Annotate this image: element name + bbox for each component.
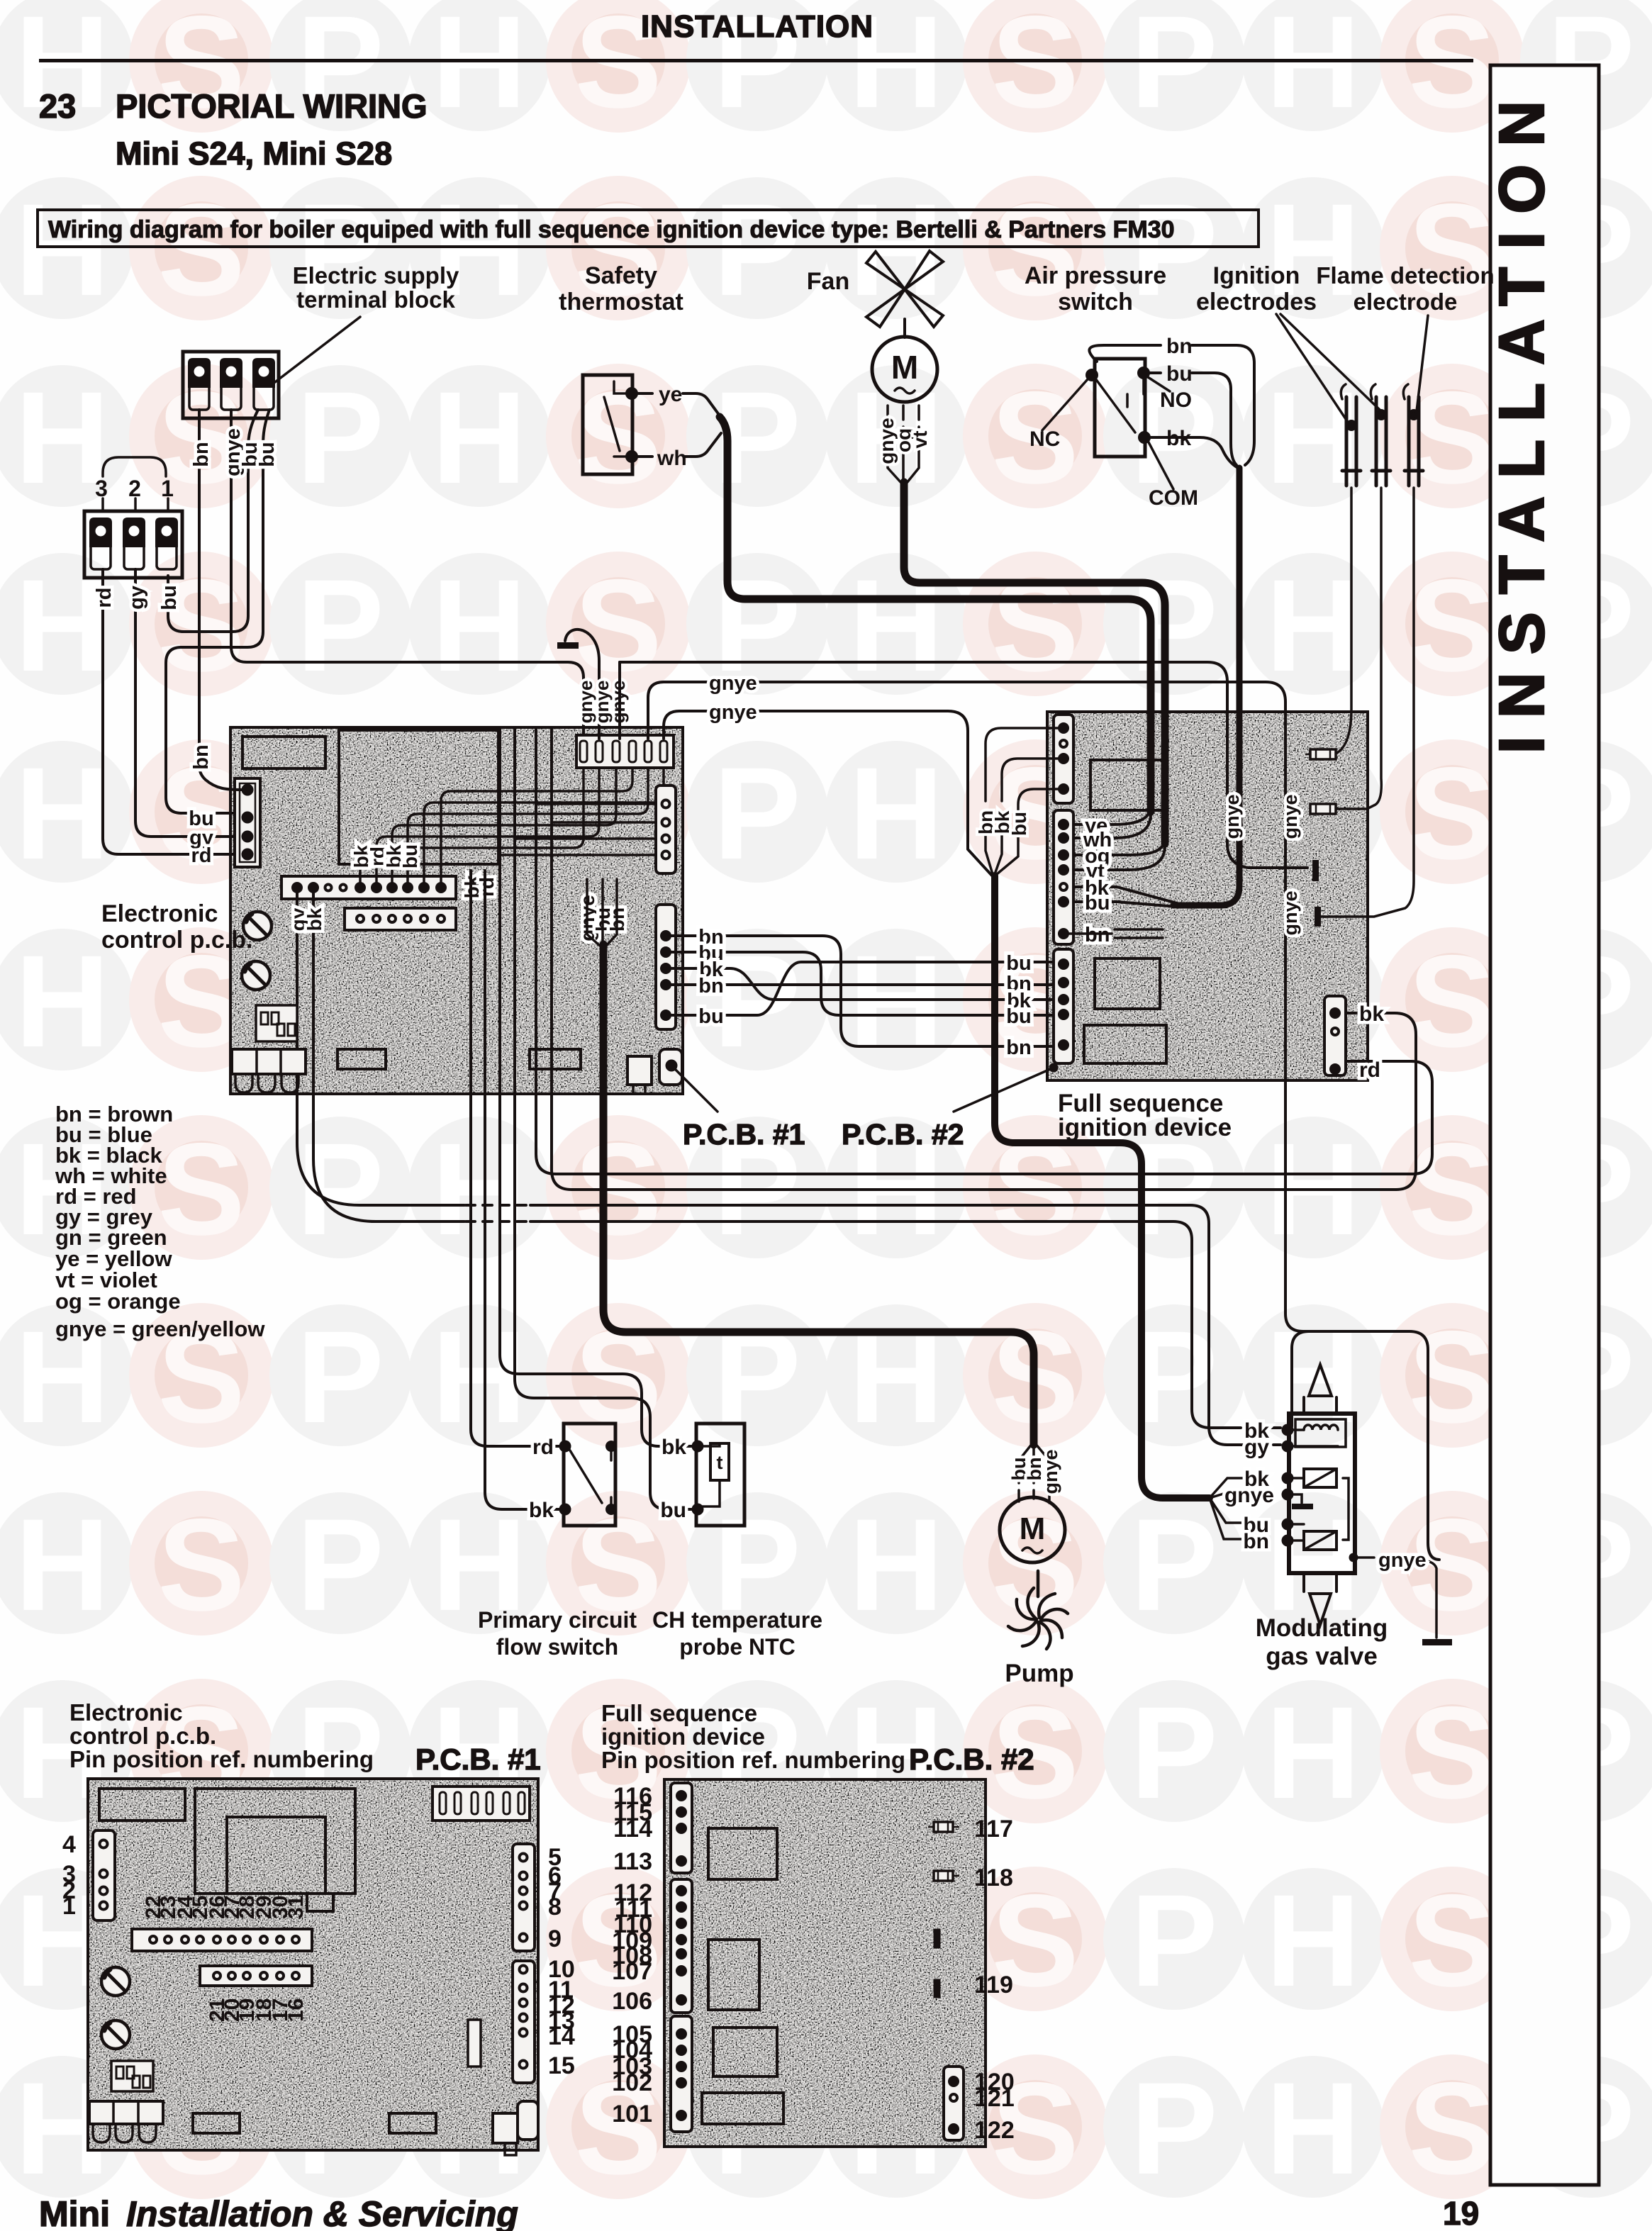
wire bu to NTC — [515, 727, 692, 1509]
svg-text:bu: bu — [1085, 892, 1110, 915]
10 pin connector strip — [281, 876, 456, 899]
svg-text:31: 31 — [284, 1896, 308, 1919]
leader line to PCB#2 label — [1049, 1063, 1059, 1073]
top-left box — [99, 1789, 185, 1821]
label: Safety thermostat — [559, 262, 683, 315]
svg-text:rd: rd — [1359, 1058, 1380, 1082]
wire loom slot4 to pin10 — [441, 768, 632, 883]
PCB1 electronic control pcb board base — [230, 727, 683, 1094]
thick cable from fan to PCB2 — [904, 482, 1165, 844]
svg-text:INSTALLATION: INSTALLATION — [1487, 83, 1558, 754]
svg-text:Pin position ref. numbering: Pin position ref. numbering — [601, 1747, 905, 1773]
PCB2 left connector bottom — [1054, 949, 1073, 1063]
svg-text:bn: bn — [190, 442, 213, 466]
svg-text:119: 119 — [974, 1972, 1013, 1998]
svg-text:ignition device: ignition device — [1058, 1114, 1232, 1141]
svg-text:bn: bn — [1006, 1036, 1031, 1059]
svg-text:gnye: gnye — [1222, 794, 1243, 839]
svg-text:8: 8 — [548, 1894, 562, 1920]
primary circuit flow switch — [561, 1424, 616, 1526]
svg-text:bu: bu — [698, 1005, 723, 1028]
rotated pin numbers 21-16 — [206, 1998, 308, 2022]
PCB1 bottom right connector with dot — [627, 1049, 682, 1094]
Electronic control pcb caption — [101, 900, 252, 954]
PCB1 left edge connector — [235, 778, 260, 867]
labels bk rd at PCB2 right — [1359, 1002, 1384, 1082]
svg-text:122: 122 — [974, 2117, 1015, 2144]
PCB1 board outline — [230, 727, 683, 1094]
left connector 112-106 — [671, 1879, 692, 2013]
left connector 116-113 — [671, 1783, 692, 1873]
thermostat cable fork to ye wh — [1072, 808, 1151, 838]
PCB1 right edge connector lower — [656, 905, 676, 1029]
caption electronic control pcb pin numbering — [69, 1699, 541, 1776]
thick cable from thermostat to PCB2 — [720, 417, 1151, 812]
wire ye — [637, 393, 721, 418]
svg-text:bk: bk — [1166, 427, 1191, 450]
fan wires gnye og vt — [888, 406, 919, 483]
ignition electrode 2 — [1337, 384, 1390, 809]
pump wires merge inside PCB1 — [587, 879, 617, 946]
gas valve operators — [1283, 1469, 1349, 1550]
svg-text:bk: bk — [303, 907, 325, 931]
potentiometer P1 — [243, 912, 272, 940]
wire loom slot6 to pin9 — [424, 768, 664, 883]
svg-text:Safety: Safety — [585, 262, 657, 289]
svg-text:M: M — [1020, 1511, 1046, 1546]
gnye labels above strip — [575, 681, 629, 724]
svg-text:wh: wh — [657, 447, 687, 470]
potentiometers — [101, 1967, 130, 2049]
wire gnye from TB1 long horizontal — [231, 410, 584, 739]
svg-text:Installation & Servicing: Installation & Servicing — [126, 2194, 518, 2231]
bn wire end into left connector — [199, 766, 242, 790]
svg-text:102: 102 — [612, 2069, 652, 2096]
svg-text:rd: rd — [93, 588, 116, 608]
hooked wires from pins 1 3 4 — [986, 728, 1059, 801]
svg-text:114: 114 — [613, 1816, 652, 1843]
PCB2 full sequence ignition device board base — [1047, 712, 1368, 1080]
wire bk PCB1 to PCB2 pin bk — [670, 968, 1069, 1000]
right small components 117 118 119 — [929, 1822, 959, 1997]
svg-text:3: 3 — [95, 476, 108, 501]
gnye wire pin3 branch — [618, 662, 621, 739]
svg-text:INSTALLATION: INSTALLATION — [641, 9, 874, 44]
svg-text:P.C.B. #1: P.C.B. #1 — [415, 1743, 541, 1776]
svg-text:CH temperature: CH temperature — [652, 1607, 822, 1633]
second pin connector — [200, 1966, 312, 1986]
APS cable fork to bk bu — [1072, 887, 1177, 907]
PCB#2 inner boxes — [708, 1828, 777, 1879]
svg-text:Primary circuit: Primary circuit — [478, 1607, 637, 1633]
svg-text:M: M — [891, 349, 918, 386]
svg-text:switch: switch — [1058, 289, 1133, 315]
pump impeller — [1008, 1571, 1068, 1649]
svg-text:bn: bn — [1243, 1530, 1269, 1553]
svg-text:4: 4 — [62, 1831, 76, 1858]
earth terminal bar bottom right — [1422, 1639, 1452, 1645]
right INSTALLATION side banner — [1490, 65, 1599, 2185]
gas valve coil — [1283, 1419, 1346, 1451]
svg-text:bk: bk — [1359, 1002, 1384, 1026]
svg-text:113: 113 — [613, 1848, 652, 1875]
top right connector — [432, 1787, 530, 1821]
svg-text:control p.c.b.: control p.c.b. — [69, 1723, 216, 1749]
wire gy TB2 to PCB1 — [135, 569, 242, 837]
svg-text:121: 121 — [974, 2085, 1015, 2112]
wire bn2 PCB1 to PCB2 — [670, 983, 1069, 986]
svg-text:control p.c.b.: control p.c.b. — [101, 927, 252, 954]
Full sequence ignition device caption — [1058, 1090, 1232, 1141]
PCB1 bottom small boxes — [337, 1049, 386, 1069]
bottom small boxes — [193, 2113, 240, 2133]
svg-text:118: 118 — [974, 1864, 1013, 1891]
svg-text:ignition device: ignition device — [601, 1723, 765, 1750]
labels bk bu left of PCB2 — [975, 810, 1030, 836]
svg-text:rd: rd — [476, 877, 498, 897]
fan motor M — [872, 337, 937, 402]
bottom right connectors — [493, 2101, 538, 2155]
wire labels bn gnye bu bu (rotated) — [190, 428, 279, 476]
svg-text:bu: bu — [1008, 812, 1030, 836]
wire bk to flow switch — [485, 871, 559, 1509]
jog wires to right edge connector — [500, 804, 656, 855]
svg-text:P.C.B. #2: P.C.B. #2 — [842, 1118, 964, 1151]
svg-text:106: 106 — [612, 1988, 652, 2015]
gnye wire from pin5 to PCB2 — [648, 682, 1285, 744]
earth terminal bar — [557, 642, 579, 649]
svg-text:Ignition: Ignition — [1213, 262, 1300, 289]
svg-text:rd: rd — [532, 1436, 554, 1459]
svg-text:og = orange: og = orange — [55, 1289, 181, 1314]
wire loom slot3 to pin7 — [392, 768, 616, 883]
wire bu2 TB1 to PCB1 — [166, 410, 269, 813]
header rule — [39, 59, 1473, 62]
svg-text:14: 14 — [548, 2023, 575, 2050]
big middle boxes — [195, 1789, 355, 1894]
wire link PCB1 to PCB2 bk — [552, 727, 1416, 1190]
label: Electric supply terminal block — [293, 262, 459, 313]
svg-text:1: 1 — [62, 1893, 76, 1920]
wire loom slot2 to pin6 — [376, 768, 599, 883]
label: Fan — [807, 268, 849, 295]
svg-text:gnye: gnye — [709, 701, 757, 724]
svg-text:gnye: gnye — [709, 672, 757, 695]
leader NC — [1042, 379, 1088, 430]
right connector 120-122 — [944, 2067, 964, 2140]
svg-text:P.C.B. #1: P.C.B. #1 — [683, 1118, 805, 1151]
svg-text:NC: NC — [1029, 427, 1060, 451]
svg-text:gnye: gnye — [1280, 890, 1301, 935]
gas valve internal earth — [1292, 1494, 1313, 1509]
svg-text:electrodes: electrodes — [1196, 289, 1317, 315]
wire bu2 PCB1 to PCB2 — [670, 962, 1069, 1015]
wire rd TB2 to PCB1 — [103, 569, 242, 854]
svg-text:23: 23 — [39, 87, 76, 125]
svg-text:gy: gy — [1244, 1436, 1269, 1459]
terminal block TB1 (electric supply) — [183, 352, 279, 418]
gas valve thick cable from PCB2 — [995, 876, 1210, 1498]
gy bk wires from pins down — [297, 892, 1280, 1445]
svg-text:gnye: gnye — [1040, 1449, 1061, 1494]
wire loom slot5 to pin8 — [408, 768, 648, 883]
svg-text:bn: bn — [1166, 335, 1193, 358]
svg-text:Modulating: Modulating — [1256, 1614, 1388, 1642]
potentiometer P2 — [242, 961, 270, 990]
svg-text:107: 107 — [612, 1958, 652, 1985]
svg-text:Wiring diagram for boiler equi: Wiring diagram for boiler equiped with f… — [48, 216, 1175, 243]
wire bu from APS — [1149, 373, 1237, 465]
PCB2 board outline — [1047, 712, 1368, 1080]
labels bk rd bk bu above pins — [350, 844, 421, 868]
fan cable fork to og vt — [1072, 840, 1165, 870]
leader lines to electrodes — [1276, 314, 1428, 423]
svg-text:bn: bn — [190, 744, 213, 769]
svg-text:15: 15 — [548, 2052, 575, 2079]
svg-text:gnye: gnye — [1224, 1484, 1274, 1507]
svg-text:bk: bk — [529, 1499, 554, 1522]
modulating gas valve body — [1289, 1365, 1355, 1625]
svg-text:P.C.B. #2: P.C.B. #2 — [909, 1743, 1034, 1776]
ignition fuse components — [1306, 749, 1336, 814]
PCB2 left connector top — [1054, 715, 1073, 803]
svg-text:Electronic: Electronic — [101, 900, 218, 927]
caption full sequence pin numbering — [601, 1700, 1034, 1776]
fan blades icon — [866, 251, 943, 337]
PCB1 bottom left connectors — [232, 1049, 306, 1092]
pump motor — [1000, 1497, 1065, 1562]
terminal block TB2 (3 2 1) — [84, 498, 182, 578]
svg-text:NO: NO — [1160, 388, 1192, 412]
svg-text:Air pressure: Air pressure — [1025, 262, 1166, 289]
svg-text:Fan: Fan — [807, 268, 849, 295]
labels bn bu gy rd at PCB1 left — [189, 744, 213, 867]
labels gnye bu bn inside PCB1 — [576, 895, 628, 941]
gnye wire from pin6 — [664, 711, 992, 876]
svg-text:bu: bu — [399, 844, 421, 868]
BOTTOM — [55, 1102, 1452, 2155]
svg-text:rd: rd — [191, 844, 212, 867]
svg-text:flow switch: flow switch — [496, 1634, 618, 1660]
internal gnye wires in PCB2 — [1285, 744, 1439, 1560]
wire link PCB1 to PCB2 rd — [536, 727, 1432, 1174]
wire bk from APS — [1149, 437, 1238, 468]
svg-text:Flame detection: Flame detection — [1316, 262, 1494, 289]
left connector pins 1-4 — [93, 1830, 115, 1920]
label 3 2 1 bracket — [103, 457, 166, 476]
gas valve labels — [1224, 1419, 1274, 1553]
left pin number labels — [612, 1783, 652, 2127]
wire bn from APS — [1089, 345, 1254, 465]
DIP switch block — [256, 1005, 297, 1041]
wire bu TB1 to TB2 loop — [168, 410, 258, 632]
braid labels left — [698, 926, 724, 1028]
svg-text:probe NTC: probe NTC — [679, 1634, 796, 1660]
svg-text:Electronic: Electronic — [69, 1699, 183, 1726]
wire labels rd gy bu below TB2 (rotated) — [93, 585, 181, 610]
svg-text:Electric supply: Electric supply — [293, 262, 459, 289]
right connector pins 5-9 — [513, 1844, 535, 1951]
svg-text:gas valve: gas valve — [1266, 1643, 1378, 1670]
wire bu PCB1 to PCB2 pin bu — [670, 952, 1069, 1015]
labels bk rd right of connector — [461, 875, 498, 898]
svg-text:gnye: gnye — [1378, 1549, 1427, 1572]
svg-text:Mini S24, Mini S28: Mini S24, Mini S28 — [116, 135, 392, 172]
svg-text:bu: bu — [1006, 1005, 1031, 1028]
PCB#2 pin diagram board — [664, 1779, 986, 2147]
svg-text:Pump: Pump — [1005, 1660, 1073, 1687]
thick cable from APS to PCB2 — [1173, 468, 1239, 905]
PCBS — [101, 630, 1439, 1560]
svg-text:19: 19 — [1443, 2195, 1479, 2231]
DIP switch — [111, 2061, 153, 2091]
bottom left connectors — [89, 2101, 163, 2142]
svg-text:bk: bk — [662, 1436, 686, 1459]
svg-text:Pin position ref. numbering: Pin position ref. numbering — [69, 1746, 374, 1772]
PCB1 right edge connector upper — [656, 785, 676, 873]
flame detection electrode — [1324, 384, 1423, 917]
svg-text:bu: bu — [1006, 952, 1031, 975]
PCB2 left connector middle — [1054, 810, 1073, 944]
svg-text:16: 16 — [284, 1998, 308, 2022]
PCB2 inner boxes — [1090, 760, 1163, 810]
wire bn from TB1 to PCB1 — [198, 410, 201, 766]
leader line to terminal block — [272, 317, 360, 384]
PCB captions — [683, 1118, 964, 1151]
svg-text:bn: bn — [1085, 924, 1110, 946]
PCB1 big inner box — [339, 730, 498, 864]
leader NO — [1148, 377, 1170, 391]
pin labels ye wh og vt bk bu bn — [1083, 815, 1112, 946]
svg-text:bn: bn — [698, 975, 723, 997]
wire bn PCB1 to PCB2 pin bn — [670, 936, 1069, 1046]
svg-text:bu: bu — [256, 442, 279, 466]
T spade terminals on PCB2 — [1312, 860, 1319, 881]
safety thermostat ST1 — [583, 375, 637, 474]
braid labels right — [1006, 952, 1032, 1059]
label: Air pressure switch — [1025, 262, 1166, 315]
colour code legend — [55, 1102, 265, 1341]
svg-text:terminal block: terminal block — [296, 286, 455, 313]
wire bk to NTC — [500, 727, 692, 1446]
CH temperature probe NTC — [693, 1424, 745, 1526]
rotated pin numbers 22-31 — [142, 1895, 308, 1919]
gnye connector strip on PCB1 top — [576, 735, 674, 768]
pump cable fork bu bn gnye — [1019, 1443, 1049, 1503]
svg-text:bu: bu — [158, 585, 181, 610]
svg-text:bu: bu — [1166, 362, 1193, 386]
svg-text:PICTORIAL WIRING: PICTORIAL WIRING — [116, 87, 428, 125]
PCB#1 pin diagram board — [88, 1779, 538, 2150]
wire loom slot1 to pin5 — [360, 768, 584, 883]
right connector pins 10-15 — [513, 1961, 535, 2083]
leader line to PCB#1 label — [675, 1069, 718, 1112]
svg-text:vt: vt — [909, 431, 931, 449]
svg-text:gnye = green/yellow: gnye = green/yellow — [55, 1316, 265, 1341]
gnye to earth at gas valve — [1349, 1553, 1358, 1562]
long pin connector — [132, 1929, 312, 1951]
7 hole connector strip — [345, 908, 456, 930]
svg-text:101: 101 — [612, 2101, 652, 2127]
bn pin twin wire — [1068, 929, 1163, 938]
svg-text:thermostat: thermostat — [559, 289, 683, 315]
svg-text:bu: bu — [660, 1499, 686, 1522]
svg-text:electrode: electrode — [1354, 289, 1458, 315]
svg-text:gnye: gnye — [1280, 794, 1301, 839]
thick pump cable from PCB1 to pump — [603, 944, 1034, 1445]
svg-text:gy: gy — [125, 586, 148, 610]
PCB1 top-left box — [242, 737, 325, 768]
wire rd to flow switch — [471, 871, 559, 1446]
gas valve cable fork bk gnye bu bn — [1210, 1478, 1242, 1539]
banner box — [38, 210, 1258, 247]
leader COM — [1148, 441, 1173, 489]
labels gy bk below pins — [287, 907, 325, 931]
ignition electrode 1 — [1334, 384, 1361, 754]
svg-text:t: t — [717, 1452, 723, 1473]
label: Ignition electrodes — [1196, 262, 1317, 315]
inline gnye labels on horizontal wires — [709, 672, 757, 724]
wire wh — [637, 433, 721, 457]
svg-text:Mini: Mini — [39, 2194, 110, 2231]
small component — [468, 2020, 481, 2067]
left connector 105-101 — [671, 2016, 692, 2132]
svg-text:117: 117 — [974, 1816, 1013, 1843]
long gnye wire to PCB2 T terminal — [620, 662, 1307, 868]
svg-text:ye: ye — [659, 383, 682, 406]
svg-text:Full sequence: Full sequence — [601, 1700, 757, 1726]
PCB2 right connector — [1324, 996, 1346, 1075]
label: Flame detection electrode — [1316, 262, 1494, 315]
svg-text:9: 9 — [548, 1925, 562, 1952]
earth loop wire at supply — [565, 630, 599, 739]
air pressure switch APS — [1087, 359, 1149, 457]
